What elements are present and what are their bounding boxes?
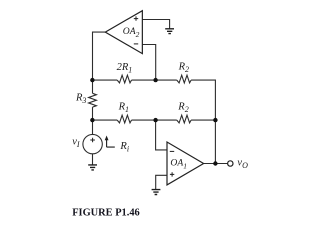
- svg-text:R3: R3: [75, 92, 86, 105]
- svg-text:OA1: OA1: [170, 158, 187, 171]
- svg-text:Ri: Ri: [119, 141, 129, 154]
- svg-text:2R1: 2R1: [117, 62, 133, 75]
- svg-text:vI: vI: [72, 137, 80, 150]
- svg-text:vO: vO: [237, 157, 248, 170]
- svg-text:R2: R2: [177, 102, 188, 115]
- svg-text:R2: R2: [178, 61, 189, 74]
- svg-text:OA2: OA2: [123, 26, 140, 39]
- svg-text:FIGURE P1.46: FIGURE P1.46: [72, 207, 140, 218]
- svg-text:R1: R1: [118, 101, 129, 114]
